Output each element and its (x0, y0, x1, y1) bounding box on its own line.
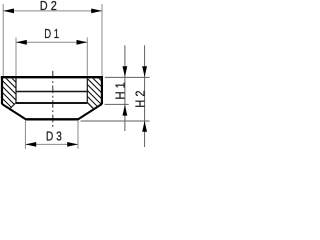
inner step line (16, 91, 87, 93)
svg-text:D 2: D 2 (40, 0, 57, 13)
D3 left extension line (24, 121, 26, 149)
H2 dimension line (144, 45, 146, 147)
bottom face extension line (right) (81, 120, 150, 122)
left taper (2, 104, 26, 119)
D3 left arrow (25, 142, 36, 147)
right inner wall (86, 78, 88, 102)
D1 left arrow (16, 40, 27, 45)
H2 top arrow (142, 66, 147, 77)
svg-text:H 1: H 1 (113, 82, 128, 99)
right inner cone edge (87, 103, 94, 110)
top face extension line (right) (105, 76, 150, 78)
svg-text:D 1: D 1 (44, 26, 59, 41)
left outer wall (1, 77, 3, 104)
D3 right extension line (77, 121, 79, 149)
hatch right wall (87, 78, 103, 109)
D1 right extension line (86, 38, 88, 76)
D3 dimension line (25, 143, 78, 145)
svg-text:D 3: D 3 (46, 129, 62, 144)
D2 right arrow (91, 9, 102, 14)
H1 bottom extension line (105, 103, 129, 105)
centerline (52, 71, 54, 127)
D2 left extension line (2, 4, 4, 76)
D1 right arrow (77, 40, 88, 45)
H1 bottom arrow (123, 105, 128, 116)
left inner cone edge (10, 103, 16, 109)
H1 dimension line (124, 45, 126, 131)
part top face (1, 76, 103, 78)
D2 left arrow (3, 9, 14, 14)
right taper (78, 104, 102, 119)
H1 top arrow (123, 66, 128, 77)
left inner wall (15, 78, 17, 102)
D2 right extension line (101, 4, 103, 76)
svg-text:H 2: H 2 (132, 90, 147, 107)
D1 dimension line (16, 41, 87, 43)
bottom face (25, 118, 78, 120)
D1 left extension line (15, 38, 17, 76)
inner cone bottom line (16, 102, 87, 104)
right outer wall (101, 77, 103, 104)
hatch left wall (1, 78, 16, 109)
H2 bottom arrow (142, 121, 147, 132)
D2 dimension line (3, 10, 102, 12)
D3 right arrow (67, 142, 78, 147)
